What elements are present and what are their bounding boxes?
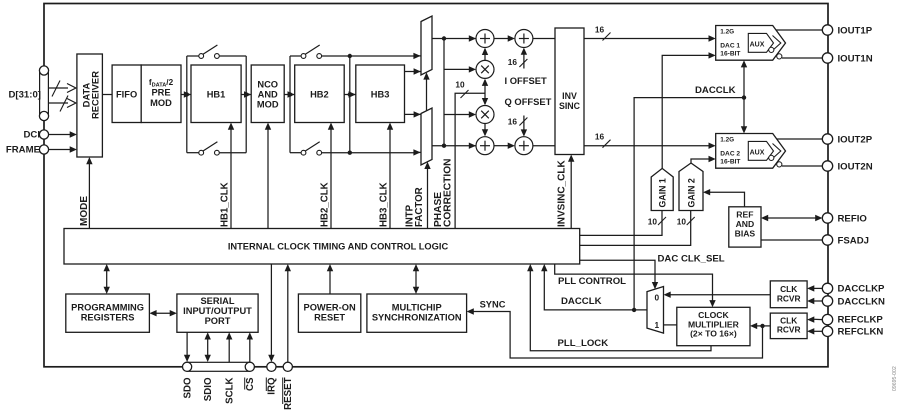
block NCO AND MOD	[251, 65, 284, 123]
svg-text:DCI: DCI	[23, 130, 40, 141]
wire HB3 Q output to intp mux	[405, 111, 421, 117]
block PROGRAMMING REGISTERS	[66, 294, 150, 332]
block SERIAL INPUT/OUTPUT PORT	[177, 294, 258, 332]
wire IOUT2N	[782, 165, 822, 167]
svg-text:HB1: HB1	[207, 90, 226, 100]
label HB2_CLK	[320, 182, 331, 227]
label IOUT2N	[838, 162, 873, 173]
label INTP FACTOR	[405, 187, 425, 227]
pin DCI	[39, 130, 48, 139]
svg-text:10: 10	[648, 217, 658, 227]
label 16 Q offset	[508, 117, 518, 127]
wire HB3 I output to intp mux	[405, 68, 421, 74]
svg-text:REFIO: REFIO	[838, 213, 868, 224]
svg-text:REFCLKN: REFCLKN	[838, 327, 884, 338]
svg-text:16: 16	[508, 57, 518, 67]
pin DACCLKP	[822, 283, 832, 293]
pin IOUT2P	[822, 134, 832, 144]
wire DCI to data receiver	[49, 131, 77, 137]
svg-text:MODE: MODE	[79, 196, 90, 226]
svg-text:NCO: NCO	[257, 79, 278, 89]
svg-text:1: 1	[654, 320, 659, 330]
wire control to programming registers	[104, 264, 110, 294]
wire GAIN2 10-bit bus	[580, 211, 695, 246]
wire IOUT1P	[776, 29, 822, 31]
svg-text:AND: AND	[736, 219, 755, 229]
svg-text:SCLK: SCLK	[224, 378, 235, 404]
wire HB3_CLK	[387, 123, 393, 229]
label REFCLKN	[838, 327, 884, 338]
label INVSINC_CLK	[557, 160, 568, 227]
svg-text:AUX: AUX	[750, 149, 765, 156]
svg-text:SDIO: SDIO	[203, 377, 214, 401]
label PLL CONTROL	[558, 276, 626, 287]
svg-text:MOD: MOD	[150, 98, 172, 108]
wire HB2 bypass rails	[290, 53, 421, 156]
svg-text:FSADJ: FSADJ	[838, 235, 869, 246]
wire HB1 to NCO	[241, 91, 251, 97]
block HB2	[295, 65, 345, 123]
wire I data to DAC1	[584, 33, 716, 42]
label REFCLKP	[838, 315, 884, 326]
svg-text:DACCLKP: DACCLKP	[838, 284, 886, 295]
svg-text:INVSINC_CLK: INVSINC_CLK	[557, 160, 568, 227]
svg-text:DACCLK: DACCLK	[561, 296, 602, 307]
svg-text:IOUT2P: IOUT2P	[838, 134, 873, 145]
pin DACCLKN	[822, 296, 832, 306]
label DACCLKN	[838, 296, 886, 307]
block HB3	[356, 65, 405, 123]
block INV SINC	[555, 28, 584, 155]
pin IOUT1N	[822, 53, 832, 63]
block CLK RCVR refclk	[770, 313, 807, 339]
wire SCLK	[226, 332, 232, 362]
svg-text:AUX: AUX	[750, 41, 765, 48]
wire phase word 10-bit bus	[455, 90, 485, 229]
svg-text:MULTICHIP: MULTICHIP	[392, 303, 442, 313]
label PLL_LOCK	[558, 338, 609, 349]
serial pins capsule	[183, 362, 255, 371]
svg-text:INPUT/OUTPUT: INPUT/OUTPUT	[183, 306, 252, 316]
wire REFIO	[761, 215, 822, 221]
svg-text:RCVR: RCVR	[777, 293, 801, 303]
svg-text:IOUT1P: IOUT1P	[838, 25, 873, 36]
block POWER-ON RESET	[298, 294, 360, 332]
wire IQ cross feed	[442, 39, 476, 148]
svg-text:16: 16	[595, 25, 605, 35]
svg-text:CORRECTION: CORRECTION	[442, 159, 453, 227]
wire adder I-1 to adder I-2	[494, 35, 515, 41]
pin IOUT2N	[822, 161, 832, 171]
svg-text:HB3: HB3	[371, 90, 390, 100]
wire multiplier Q to adder Q-1	[482, 124, 488, 137]
pin REFCLKN	[822, 326, 832, 336]
block REF AND BIAS	[729, 207, 761, 247]
wire programming registers to serial port	[149, 310, 177, 316]
block CLOCK MULTIPLIER	[677, 307, 750, 345]
svg-text:16-BIT: 16-BIT	[720, 51, 740, 58]
mux INTP FACTOR I-path	[421, 16, 432, 75]
svg-text:BIAS: BIAS	[735, 229, 756, 239]
label IRQ	[266, 377, 277, 395]
wire IOUT2P	[777, 138, 823, 140]
wire RESET	[285, 264, 291, 362]
wire adder Q-1 to adder Q-2	[494, 143, 515, 149]
DAC U1 (1.2G DAC 1 16-BIT with AUX)	[716, 26, 786, 61]
wire I OFFSET input	[519, 48, 527, 69]
block DATA RECEIVER	[77, 54, 103, 157]
svg-text:CS: CS	[245, 377, 256, 391]
pin RESET	[283, 362, 292, 371]
svg-text:FRAME: FRAME	[6, 145, 41, 156]
svg-text:GAIN 1: GAIN 1	[658, 178, 668, 207]
figure number	[892, 366, 898, 391]
adder I-1	[476, 30, 494, 48]
svg-text:SINC: SINC	[559, 101, 581, 111]
label RESET	[283, 377, 294, 409]
wire Q OFFSET input	[519, 116, 527, 137]
label D[31:0]	[8, 90, 41, 101]
label PHASE CORRECTION	[433, 159, 453, 227]
block HB1	[191, 65, 241, 123]
wire DACCLKN	[807, 298, 822, 304]
wire premod to HB1	[181, 91, 191, 97]
wire IOUT1N	[782, 57, 822, 59]
wire SYNC	[467, 308, 763, 358]
wire PLL_LOCK	[527, 264, 711, 351]
label IOUT1N	[838, 53, 873, 64]
svg-text:RESET: RESET	[283, 377, 294, 409]
block GAIN 1	[651, 168, 673, 210]
wire control to multichip sync	[413, 264, 419, 294]
svg-text:GAIN 2: GAIN 2	[687, 178, 697, 207]
wire INTP FACTOR control	[424, 162, 430, 229]
wire GAIN2 output to DAC2	[691, 156, 716, 163]
switch HB1 bypass bottom	[199, 142, 220, 155]
svg-text:PORT: PORT	[205, 316, 231, 326]
block FIFO	[112, 65, 141, 123]
wire refclk receiver to clock multiplier	[750, 323, 770, 329]
svg-text:SYNCHRONIZATION: SYNCHRONIZATION	[372, 313, 462, 323]
svg-text:REFCLKP: REFCLKP	[838, 315, 884, 326]
svg-text:DAC 1: DAC 1	[720, 43, 740, 50]
svg-text:16: 16	[508, 117, 518, 127]
label HB3_CLK	[379, 182, 390, 227]
svg-text:0: 0	[654, 292, 659, 302]
wire NCO clock	[265, 123, 271, 229]
label IOUT1P	[838, 25, 873, 36]
svg-text:IOUT2N: IOUT2N	[838, 162, 873, 173]
block GAIN 2	[679, 163, 703, 211]
svg-text:PLL CONTROL: PLL CONTROL	[558, 276, 626, 287]
label DACCLKP	[838, 284, 886, 295]
switch HB2 bypass top	[301, 45, 322, 58]
pin FSADJ	[822, 235, 832, 245]
block INTERNAL CLOCK TIMING AND CONTROL LOGIC	[64, 229, 580, 265]
wire Q data to DAC2	[584, 140, 716, 149]
adder Q-2	[515, 137, 533, 155]
wire ref bias to GAIN2	[703, 189, 745, 207]
label 10 gain2	[677, 217, 687, 227]
label HB1_CLK	[220, 182, 231, 227]
svg-text:1.2G: 1.2G	[720, 137, 734, 144]
label DACCLK bottom	[561, 296, 602, 307]
svg-text:INTERNAL CLOCK TIMING AND CONT: INTERNAL CLOCK TIMING AND CONTROL LOGIC	[228, 242, 449, 252]
label DACCLK top	[695, 85, 736, 96]
wire power-on reset to control	[327, 264, 333, 294]
chip boundary frame	[44, 4, 828, 367]
svg-text:1.2G: 1.2G	[720, 29, 734, 36]
wire FRAME to data receiver	[49, 146, 77, 152]
wire Q-path mux to adder	[432, 143, 476, 149]
svg-text:SDO: SDO	[182, 377, 193, 398]
svg-text:PRE: PRE	[151, 88, 170, 98]
svg-text:DACCLK: DACCLK	[695, 85, 736, 96]
wire gain bus between multipliers	[482, 79, 488, 106]
label mux input 1	[654, 320, 659, 330]
label MODE	[79, 196, 90, 226]
wire NCO to HB2	[284, 91, 295, 97]
switch HB2 bypass bottom	[301, 142, 322, 155]
wire GAIN1 10-bit bus	[580, 211, 666, 236]
svg-text:DAC CLK_SEL: DAC CLK_SEL	[658, 254, 725, 265]
svg-text:SYNC: SYNC	[480, 299, 506, 309]
svg-text:Q OFFSET: Q OFFSET	[505, 96, 552, 107]
wire INVSINC_CLK	[568, 155, 574, 229]
label 16 I offset	[508, 57, 518, 67]
wire GAIN1 output to DAC1	[662, 52, 716, 168]
svg-text:RESET: RESET	[314, 313, 345, 323]
adder I-2	[515, 30, 533, 48]
svg-text:RCVR: RCVR	[777, 325, 801, 335]
wire adder Q-2 to inv sinc	[533, 145, 555, 147]
wire SDO	[184, 332, 190, 362]
label CS	[245, 377, 256, 391]
label FRAME	[6, 145, 41, 156]
label FSADJ	[838, 235, 869, 246]
svg-text:RECEIVER: RECEIVER	[90, 71, 101, 119]
adder Q-1	[476, 137, 494, 155]
wire IRQ	[268, 264, 274, 362]
wire PLL CONTROL	[555, 264, 716, 307]
svg-text:POWER-ON: POWER-ON	[304, 303, 356, 313]
svg-text:DAC 2: DAC 2	[720, 151, 740, 158]
label SYNC	[480, 299, 506, 309]
svg-text:PROGRAMMING: PROGRAMMING	[71, 303, 144, 313]
svg-text:10: 10	[677, 217, 687, 227]
label DAC CLK_SEL	[658, 254, 725, 265]
label 16 I bus	[595, 25, 605, 35]
wire HB2 to HB3	[344, 91, 356, 97]
svg-text:(2× TO 16×): (2× TO 16×)	[690, 329, 737, 339]
wire DACCLK from mux	[541, 264, 647, 312]
label SDIO	[203, 377, 214, 401]
label SCLK	[224, 378, 235, 404]
svg-text:INV: INV	[562, 91, 577, 101]
svg-text:16-BIT: 16-BIT	[720, 159, 740, 166]
wire clock multiplier to mux 1	[664, 324, 677, 326]
label 10 gain1	[648, 217, 658, 227]
wire DAC CLK_SEL	[580, 260, 659, 289]
label REFIO	[838, 213, 868, 224]
label Q OFFSET	[505, 96, 552, 107]
pin D[31:0] bus capsule	[39, 66, 48, 121]
wire HB1_CLK	[228, 123, 234, 229]
pin FRAME	[39, 145, 48, 154]
mux DAC clock select	[647, 287, 664, 334]
block MULTICHIP SYNCHRONIZATION	[367, 294, 467, 332]
block fDATA/2 PRE MOD	[141, 65, 181, 123]
wire SDIO	[205, 332, 211, 362]
svg-text:FACTOR: FACTOR	[414, 187, 425, 227]
svg-text:I OFFSET: I OFFSET	[505, 75, 547, 86]
switch HB1 bypass top	[199, 45, 220, 58]
svg-text:REF: REF	[736, 210, 753, 220]
svg-text:09695-002: 09695-002	[892, 366, 898, 391]
pin IRQ	[267, 362, 276, 371]
svg-text:PLL_LOCK: PLL_LOCK	[558, 338, 609, 349]
svg-text:10: 10	[455, 80, 465, 90]
pin REFIO	[822, 213, 832, 223]
mux INTP FACTOR Q-path	[421, 108, 432, 165]
svg-text:MOD: MOD	[257, 99, 279, 109]
svg-text:HB2_CLK: HB2_CLK	[320, 182, 331, 227]
wire multiplier I to adder I-1	[482, 48, 488, 61]
svg-text:HB1_CLK: HB1_CLK	[220, 182, 231, 227]
wire HB1 bypass loop	[187, 56, 249, 153]
DAC U2 (1.2G DAC 2 16-BIT with AUX)	[716, 134, 786, 169]
svg-text:D[31:0]: D[31:0]	[8, 90, 41, 101]
pin IOUT1P	[822, 25, 832, 35]
svg-text:HB3_CLK: HB3_CLK	[379, 182, 390, 227]
wire DACCLKP	[807, 285, 822, 291]
svg-text:IRQ: IRQ	[267, 377, 278, 395]
label 16 Q bus	[595, 132, 605, 142]
label SDO	[182, 377, 193, 398]
label IOUT2P	[838, 134, 873, 145]
svg-text:SERIAL: SERIAL	[200, 296, 234, 306]
wire dacclk receiver to mux 0	[664, 292, 771, 298]
svg-text:HB2: HB2	[310, 90, 329, 100]
svg-text:IOUT1N: IOUT1N	[838, 53, 873, 64]
block CLK RCVR dacclk	[770, 281, 807, 308]
label I OFFSET	[505, 75, 547, 86]
label 10 phase bus	[455, 80, 465, 90]
wire DACCLK trunk to DACs	[634, 60, 747, 310]
svg-text:16: 16	[595, 132, 605, 142]
wire REFCLKP	[807, 316, 822, 322]
wire REFCLKN	[807, 328, 822, 334]
svg-text:REGISTERS: REGISTERS	[81, 313, 135, 323]
wire data bus arrows into data receiver	[49, 81, 76, 112]
label mux input 0	[654, 292, 659, 302]
svg-text:FIFO: FIFO	[116, 90, 137, 100]
svg-text:DACCLKN: DACCLKN	[838, 296, 886, 307]
pin REFCLKP	[822, 314, 832, 324]
wire intp select between muxes	[423, 72, 429, 110]
wire CS	[247, 332, 253, 362]
multiplier I	[476, 60, 494, 78]
wire MODE control	[86, 157, 92, 229]
svg-text:AND: AND	[258, 89, 278, 99]
wire data receiver to FIFO	[102, 94, 112, 96]
wire I-path mux to adder	[432, 35, 476, 41]
wire HB2_CLK	[328, 123, 334, 229]
multiplier Q	[476, 106, 494, 124]
wire FSADJ	[761, 239, 822, 241]
wire adder I-2 to inv sinc	[533, 38, 555, 40]
label DCI	[23, 130, 40, 141]
